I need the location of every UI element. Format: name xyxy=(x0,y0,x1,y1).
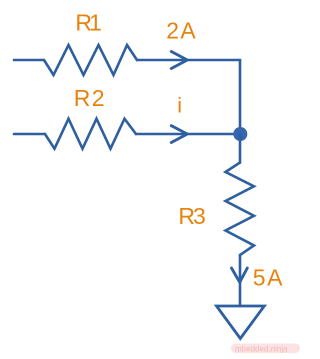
svg-text:mbedded.ninja: mbedded.ninja xyxy=(235,345,288,354)
node junction xyxy=(233,127,247,141)
current arrow 5A xyxy=(232,268,248,282)
wire from node to R3 xyxy=(239,134,242,163)
svg-text:R2: R2 xyxy=(74,85,106,111)
resistor R3 xyxy=(226,163,255,256)
wire right vertical from corner to node xyxy=(239,60,242,134)
svg-text:i: i xyxy=(177,94,182,118)
wire from R3 to ground xyxy=(239,255,242,306)
current arrow i xyxy=(171,126,187,143)
svg-text:R1: R1 xyxy=(75,10,101,36)
current arrow 2A xyxy=(171,52,187,69)
svg-text:R3: R3 xyxy=(178,203,205,229)
resistor R2 xyxy=(45,119,136,149)
watermark xyxy=(231,344,300,354)
wire left lead of R2 xyxy=(14,133,45,136)
resistor R1 xyxy=(44,45,137,75)
wire from R1 to top-right corner xyxy=(137,59,240,62)
wire from R2 to node xyxy=(136,133,240,136)
wire left lead of R1 xyxy=(14,59,44,62)
svg-text:5A: 5A xyxy=(253,265,285,291)
ground xyxy=(217,306,265,339)
svg-text:2A: 2A xyxy=(166,18,197,44)
